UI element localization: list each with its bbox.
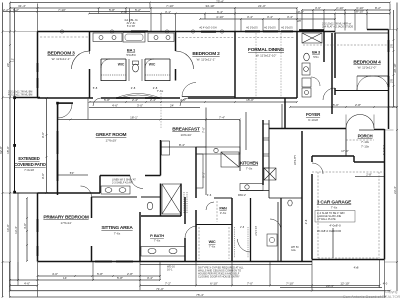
shower pbath	[162, 184, 181, 214]
header laundry	[299, 29, 324, 31]
dim greatroom row	[58, 119, 240, 121]
wall pantry north	[214, 197, 232, 199]
svg-text:CLOSING DOOR AT HOUSE ENTRY: CLOSING DOOR AT HOUSE ENTRY	[198, 276, 240, 279]
svg-text:8'-10": 8'-10"	[356, 10, 364, 14]
svg-text:71'-0": 71'-0"	[156, 287, 164, 291]
svg-text:BEDROOM 3: BEDROOM 3	[47, 51, 75, 57]
kitchen counter top	[196, 147, 240, 154]
svg-text:9'-0": 9'-0"	[41, 173, 45, 179]
svg-text:5'-8: 5'-8	[93, 86, 98, 90]
kitchen island	[221, 152, 239, 167]
svg-text:5'-2": 5'-2"	[135, 8, 141, 12]
svg-text:6'-4": 6'-4"	[217, 10, 223, 14]
dashed centerlines dining	[255, 33, 257, 98]
svg-text:KITCHEN: KITCHEN	[240, 161, 258, 166]
wall kitchen west	[195, 147, 197, 198]
svg-text:EXTENDED: EXTENDED	[18, 156, 39, 161]
pbath tub	[141, 247, 185, 257]
door bedroom2 south	[182, 83, 196, 97]
dim left col2	[9, 3, 11, 292]
svg-text:6'-1": 6'-1"	[202, 172, 206, 178]
right col ticks	[396, 29, 398, 31]
svg-text:PORCH: PORCH	[358, 134, 373, 139]
svg-text:16'-0x8'-0 OH DOOR: 16'-0x8'-0 OH DOOR	[317, 229, 341, 233]
door bedroom3	[72, 51, 90, 69]
svg-text:9'-10x8: 9'-10x8	[308, 118, 318, 122]
wall mud east	[301, 131, 303, 262]
svg-text:#2 3'0x5'0: #2 3'0x5'0	[264, 27, 276, 30]
mud sink box	[267, 234, 277, 246]
wall breakfast west	[160, 140, 162, 176]
dim right col1	[396, 3, 398, 292]
wall bath hall east	[184, 197, 186, 224]
dim right col2	[393, 10, 395, 107]
ba3 door	[311, 77, 320, 86]
svg-text:BEDROOM 2: BEDROOM 2	[192, 51, 220, 57]
wic shelf hatch left	[101, 74, 126, 76]
svg-text:3'-4": 3'-4"	[267, 15, 273, 19]
svg-text:#2 3'0x5'0: #2 3'0x5'0	[246, 27, 258, 30]
wall foyer east	[331, 33, 333, 114]
dim bottom row4	[10, 290, 390, 292]
wall house bottom	[38, 261, 313, 263]
svg-text:4-3 1/2x11 7/8 ML BM: 4-3 1/2x11 7/8 ML BM	[8, 94, 32, 97]
dim bottom row0	[38, 275, 161, 277]
svg-text:4'-6": 4'-6"	[24, 282, 30, 286]
svg-text:FORMAL DINING: FORMAL DINING	[248, 47, 284, 53]
dashed bedroom4 ceiling	[303, 44, 387, 46]
dim hall row2	[89, 107, 200, 109]
wall bedroom2 west	[175, 32, 177, 52]
svg-text:16'-1: 16'-1	[167, 269, 173, 272]
svg-text:3'-6: 3'-6	[207, 193, 212, 197]
svg-text:17'6x19': 17'6x19'	[106, 139, 117, 143]
wall hall east of wic	[250, 198, 252, 262]
dim top row3	[3, 11, 150, 13]
ba1 vanity right	[148, 33, 174, 42]
wall rooms south	[38, 97, 94, 99]
dim kitchen vert	[205, 108, 207, 196]
dashed foyer ceiling	[346, 139, 374, 141]
wall wic north	[196, 224, 232, 226]
svg-text:10'-4": 10'-4"	[296, 10, 304, 14]
wall foyer south	[269, 128, 346, 130]
svg-text:10'0x10': 10'0x10'	[181, 133, 192, 137]
svg-text:31'-4": 31'-4"	[18, 4, 26, 8]
svg-text:5'-8": 5'-8"	[104, 98, 110, 102]
wall utility south	[240, 190, 269, 192]
window bars bedroom4 east	[388, 40, 390, 52]
ba1 vanity left	[93, 33, 122, 42]
svg-text:P. BATH: P. BATH	[150, 233, 164, 238]
svg-text:LIN 5 SH: LIN 5 SH	[255, 226, 258, 236]
svg-text:2'-8": 2'-8"	[366, 173, 372, 177]
door bedroom2	[176, 51, 194, 69]
window bars south wall ba1	[116, 97, 130, 99]
wall top bedroom4	[367, 29, 389, 31]
wall patio top beam	[15, 97, 41, 99]
svg-text:15'-0": 15'-0"	[331, 103, 339, 107]
svg-text:13'-4": 13'-4"	[14, 226, 18, 234]
svg-text:4'-0x8'-0: 4'-0x8'-0	[329, 224, 341, 228]
kitchen cab left	[196, 154, 203, 188]
wall patio west	[14, 98, 16, 194]
wall garage west	[311, 156, 313, 162]
svg-text:3'-4": 3'-4"	[247, 15, 253, 19]
wall kitchen east cabs	[262, 120, 264, 185]
dashed garage ceiling	[312, 171, 385, 173]
svg-text:4'-0: 4'-0	[383, 282, 388, 286]
svg-text:4'-6": 4'-6"	[180, 98, 186, 102]
bottom ticks	[37, 275, 39, 277]
wall bedroom2 south	[182, 96, 235, 98]
wall house bottom inner	[140, 263, 312, 265]
patio door	[57, 104, 59, 118]
front door double	[346, 115, 360, 129]
ba1 toilet walls	[128, 59, 130, 81]
hall dim ticks	[89, 101, 91, 103]
wall kitchen north cab	[239, 120, 241, 171]
dim bottom row1	[10, 279, 160, 281]
wall pantry east	[231, 198, 233, 262]
svg-text:2'-10": 2'-10"	[336, 6, 344, 10]
svg-text:COVERED PATIO: COVERED PATIO	[14, 162, 46, 167]
wall ba3 col	[323, 32, 325, 63]
garage entry door	[312, 163, 323, 174]
svg-text:#2 3'0x5'0: #2 3'0x5'0	[281, 27, 293, 30]
svg-text:3'-1": 3'-1"	[165, 10, 171, 14]
svg-text:7'-6x: 7'-6x	[154, 239, 161, 243]
svg-text:7'-6x18: 7'-6x18	[24, 168, 34, 172]
wall bedroom3 east	[89, 32, 91, 52]
dim left col3	[14, 8, 16, 98]
svg-text:5'-8": 5'-8"	[97, 272, 103, 276]
door arc hall south1	[93, 98, 188, 106]
wall bedroom4 south	[335, 90, 389, 92]
wall top bedroom4 inner	[335, 32, 389, 34]
svg-text:5'0x8'0: 5'0x8'0	[126, 53, 136, 57]
dim hall vert	[281, 104, 283, 128]
dashed pantry shelf	[216, 201, 218, 222]
bedroom4 closet doors	[357, 76, 371, 90]
svg-text:5'0": 5'0"	[70, 171, 75, 175]
dim bottom row5	[10, 296, 385, 298]
svg-text:20': 20'	[6, 63, 10, 67]
svg-text:14'-0": 14'-0"	[6, 224, 10, 232]
ba3 toilet	[304, 53, 310, 61]
dashed centerline hall	[160, 93, 162, 128]
pbath toilet	[147, 202, 153, 210]
svg-text:7'-6": 7'-6"	[202, 127, 206, 133]
svg-text:2'-8: 2'-8	[153, 86, 158, 90]
wall dining east	[296, 32, 298, 99]
svg-text:3'-4": 3'-4"	[287, 15, 293, 19]
svg-text:4'-6": 4'-6"	[112, 104, 118, 108]
door wic right	[145, 59, 154, 68]
dim garage vert	[332, 228, 334, 258]
svg-text:24': 24'	[170, 104, 174, 108]
primary door	[81, 186, 92, 197]
svg-text:3'-6x: 3'-6x	[220, 211, 227, 215]
wall garage bottom	[312, 259, 385, 261]
wall primary north	[38, 192, 101, 194]
svg-text:4'-0x8'-0: 4'-0x8'-0	[382, 144, 386, 155]
svg-text:San Antonio Board of REALTORS: San Antonio Board of REALTORS	[343, 294, 400, 299]
svg-text:5'-8": 5'-8"	[109, 8, 115, 12]
laundry units	[302, 78, 311, 87]
svg-text:FOYER: FOYER	[306, 112, 321, 117]
wall mud west	[269, 197, 302, 199]
svg-text:SITTING AREA: SITTING AREA	[101, 225, 133, 231]
svg-text:7'-10": 7'-10"	[58, 8, 66, 12]
svg-text:UTILITY: UTILITY	[293, 155, 297, 165]
svg-text:2'-8: 2'-8	[131, 86, 136, 90]
window bars greatroom west	[57, 131, 59, 154]
dim garage row	[355, 175, 385, 177]
svg-text:W: 11'0x11'-0": W: 11'0x11'-0"	[358, 66, 377, 70]
svg-text:3'-6": 3'-6"	[315, 6, 321, 10]
wall patio bottom	[15, 192, 38, 194]
svg-text:7'-4": 7'-4"	[219, 116, 225, 120]
svg-text:PRIMARY BEDROOM: PRIMARY BEDROOM	[43, 215, 88, 221]
dim bottom row2	[10, 285, 38, 287]
dim top row2	[10, 7, 297, 9]
mud area texts	[240, 226, 299, 252]
wall bedroom4 west	[334, 33, 336, 78]
wall porch top	[359, 129, 374, 131]
wall east porch garage	[384, 129, 386, 260]
dim top right row	[302, 9, 390, 11]
dim foyer row	[290, 106, 397, 108]
svg-text:5'0x: 5'0x	[313, 55, 319, 59]
svg-text:7'-6x: 7'-6x	[157, 89, 164, 93]
svg-text:2'-8": 2'-8"	[127, 272, 133, 276]
svg-text:BREAKFAST: BREAKFAST	[172, 127, 200, 133]
svg-text:4'-0": 4'-0"	[52, 272, 58, 276]
svg-text:62'-0": 62'-0"	[0, 146, 3, 154]
wall garage jog	[353, 156, 355, 162]
svg-text:18'-0": 18'-0"	[6, 146, 10, 154]
wall garage north2	[354, 161, 385, 163]
svg-text:2'-2": 2'-2"	[3, 8, 9, 12]
svg-text:2'-8: 2'-8	[304, 219, 308, 224]
ba1 toilet	[133, 64, 139, 72]
wall primary east lower	[91, 246, 93, 262]
header dining windows	[245, 30, 260, 32]
svg-text:3'-4": 3'-4"	[147, 276, 153, 280]
wall wic ba1 left	[101, 58, 126, 60]
wall bedroom3 west	[37, 32, 39, 98]
svg-text:7'-0": 7'-0"	[247, 282, 253, 286]
wall greatroom south / bath north	[100, 175, 130, 177]
dim patio vert	[46, 98, 48, 193]
svg-text:23'-4": 23'-4"	[326, 284, 334, 288]
dim kitchen vert2	[245, 112, 247, 150]
wall foyer west	[284, 98, 286, 129]
wall primary west	[37, 193, 39, 262]
svg-text:PAN: PAN	[219, 207, 227, 211]
svg-text:8'-4": 8'-4"	[179, 143, 185, 147]
wall primary east upper	[91, 197, 93, 218]
svg-text:20'-10": 20'-10"	[393, 63, 397, 72]
svg-text:18'-1": 18'-1"	[130, 116, 138, 120]
door wic left	[101, 59, 110, 68]
kitchen tall cabs	[263, 124, 269, 138]
svg-text:7'-6x: 7'-6x	[209, 245, 216, 249]
ba3 shower	[302, 33, 322, 43]
svg-text:4'-0": 4'-0"	[23, 223, 27, 229]
svg-text:12'-10": 12'-10"	[340, 282, 349, 286]
svg-text:BA 3: BA 3	[312, 51, 320, 55]
svg-text:7'-2": 7'-2"	[165, 282, 171, 286]
svg-text:WIC: WIC	[118, 63, 125, 67]
wall wic ba1 right	[145, 58, 170, 60]
svg-text:7'-6x: 7'-6x	[331, 206, 338, 210]
svg-text:4'x8: 4'x8	[354, 266, 359, 270]
wall dining west	[234, 32, 236, 99]
ext bottom	[9, 262, 11, 297]
svg-text:17'-0": 17'-0"	[341, 149, 349, 153]
svg-text:4'-10": 4'-10"	[216, 15, 224, 19]
svg-text:17'6x14': 17'6x14'	[61, 221, 72, 225]
wall top main	[38, 31, 336, 33]
window bars bedroom3 west	[37, 63, 39, 72]
svg-text:7'-10": 7'-10"	[286, 282, 294, 286]
wall greatroom west	[57, 104, 59, 196]
bath door from great room	[130, 176, 143, 189]
powder toilet	[288, 200, 292, 206]
ext right	[389, 29, 398, 31]
svg-text:15'-0": 15'-0"	[246, 98, 254, 102]
svg-text:WIC: WIC	[149, 63, 156, 67]
header patio door	[58, 102, 73, 104]
ext left	[3, 31, 38, 33]
svg-text:BA 1: BA 1	[127, 48, 136, 53]
dashed wic shelf	[198, 227, 200, 259]
svg-text:GAL: GAL	[291, 249, 297, 252]
window bars primary west	[37, 219, 39, 232]
wall sitting north	[92, 196, 138, 198]
svg-text:2'0: 2'0	[390, 44, 394, 48]
dim top row1	[10, 2, 390, 4]
svg-text:7'-10x: 7'-10x	[361, 145, 370, 149]
bedroom4 door	[323, 88, 335, 100]
svg-text:WIC: WIC	[209, 240, 216, 244]
svg-text:9'-0": 9'-0"	[41, 132, 45, 138]
dim top row4	[89, 13, 335, 15]
svg-text:14': 14'	[63, 276, 67, 280]
svg-text:21'-0": 21'-0"	[258, 4, 266, 8]
svg-text:2'-8": 2'-8"	[355, 103, 361, 107]
wic east shelves	[235, 227, 249, 258]
svg-text:2-3 SHELF 42 AFF: 2-3 SHELF 42 AFF	[112, 182, 134, 185]
left col ticks	[2, 31, 4, 33]
kitchen appliance	[264, 168, 276, 180]
svg-text:2'-8: 2'-8	[240, 226, 245, 229]
svg-text:12': 12'	[10, 58, 14, 62]
dim hall row	[89, 101, 297, 103]
dim top row5	[200, 18, 335, 20]
wic door	[185, 226, 197, 238]
wall garage north	[312, 155, 354, 157]
ext top	[37, 4, 39, 32]
svg-text:7'-0x: 7'-0x	[246, 167, 253, 171]
wall entry east seg	[374, 129, 385, 131]
pbath vanity upper	[101, 186, 130, 194]
svg-text:34'-10": 34'-10"	[205, 4, 214, 8]
wall powder west pair	[277, 202, 279, 262]
garage note box	[315, 211, 355, 223]
dim primary vert	[26, 198, 28, 261]
svg-text:75'-4": 75'-4"	[196, 293, 204, 297]
svg-text:2'0: 2'0	[390, 79, 394, 83]
svg-text:2x4 FLAT + 2 JACK STUDS: 2x4 FLAT + 2 JACK STUDS	[322, 26, 353, 29]
dim breakfast row	[160, 146, 206, 148]
window bars sitting south	[95, 261, 112, 263]
svg-text:6'-2": 6'-2"	[13, 8, 19, 12]
wall bedroom4 closet front	[357, 75, 389, 77]
arch niche hall	[116, 94, 160, 99]
dim bottom garage	[280, 287, 382, 289]
wall entry west	[345, 129, 347, 157]
wall sitting east	[139, 212, 141, 262]
svg-text:8'-2": 8'-2"	[375, 6, 381, 10]
ba3 vanity	[302, 63, 310, 75]
utility counter	[240, 184, 263, 191]
svg-text:W: 11'0x12'-10": W: 11'0x12'-10"	[256, 54, 277, 58]
svg-text:3'-0": 3'-0"	[137, 104, 143, 108]
svg-text:5'-8": 5'-8"	[117, 276, 123, 280]
pan door	[206, 202, 214, 210]
wall bath west jog	[99, 176, 101, 194]
svg-text:7'-10x: 7'-10x	[361, 140, 370, 144]
patio posts	[13, 96, 59, 193]
svg-text:5'-0 SH: 5'-0 SH	[127, 25, 135, 28]
svg-text:W: 11'4x11'-1": W: 11'4x11'-1"	[52, 57, 71, 61]
svg-text:6'-10": 6'-10"	[210, 282, 218, 286]
dim left col4	[17, 193, 19, 280]
svg-text:GREAT ROOM: GREAT ROOM	[96, 132, 127, 138]
svg-text:75'-4": 75'-4"	[216, 0, 224, 3]
svg-text:23'-4": 23'-4"	[393, 186, 397, 194]
dim left col1	[2, 3, 4, 298]
wall east bedroom4	[388, 30, 390, 130]
svg-text:AT WALL PLATE: AT WALL PLATE	[317, 218, 336, 221]
svg-text:2'-6": 2'-6"	[121, 10, 127, 14]
svg-text:7'-10": 7'-10"	[166, 4, 174, 8]
svg-text:PAN 2': PAN 2'	[238, 193, 247, 197]
wic shelf hatch right	[145, 74, 170, 76]
svg-text:#2 4'-0x5'-0 SH: #2 4'-0x5'-0 SH	[199, 27, 216, 30]
dim bottom row3	[140, 285, 380, 287]
dim greatroom south row	[58, 174, 89, 176]
svg-text:2'-4": 2'-4"	[150, 98, 156, 102]
svg-text:7'-6x: 7'-6x	[114, 232, 121, 236]
ba1 tub	[123, 33, 145, 43]
header ba1 window	[131, 30, 148, 32]
mud door arc	[238, 239, 251, 252]
svg-text:W: 11'0x11'-1": W: 11'0x11'-1"	[197, 58, 216, 62]
svg-text:2'-4": 2'-4"	[132, 98, 138, 102]
svg-text:WH: WH	[297, 20, 301, 23]
header bedroom2 window	[201, 31, 216, 33]
breakfast cab	[162, 141, 170, 155]
